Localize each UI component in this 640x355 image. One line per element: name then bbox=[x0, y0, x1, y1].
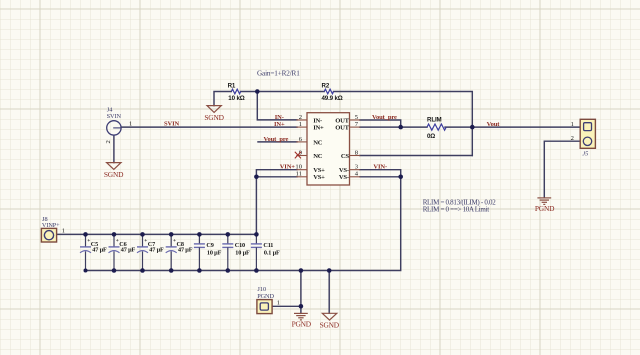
svg-text:SVIN: SVIN bbox=[107, 113, 122, 120]
svg-text:PGND: PGND bbox=[535, 204, 555, 213]
svg-text:2: 2 bbox=[299, 114, 302, 121]
connector J4 circle bbox=[107, 121, 121, 135]
svg-text:0.1 µF: 0.1 µF bbox=[264, 250, 280, 257]
svg-text:VS-: VS- bbox=[339, 167, 349, 174]
svg-text:J5: J5 bbox=[582, 150, 588, 157]
svg-text:IN-: IN- bbox=[275, 114, 284, 121]
ground SGND bottom symbol bbox=[322, 313, 337, 320]
junction bottom bus C6 bbox=[112, 268, 117, 273]
svg-text:IN-: IN- bbox=[313, 117, 322, 124]
J8 pad circle bbox=[44, 231, 53, 240]
J5 pin 1 pad square bbox=[584, 123, 592, 131]
svg-text:PGND: PGND bbox=[292, 320, 312, 329]
svg-text:SGND: SGND bbox=[104, 170, 124, 179]
J10 pad square bbox=[260, 303, 268, 310]
svg-text:10 kΩ: 10 kΩ bbox=[228, 95, 244, 102]
C6 labels bbox=[116, 238, 136, 253]
U1 pin numbers bbox=[295, 114, 358, 178]
resistor R2 bbox=[324, 89, 333, 94]
svg-text:NC: NC bbox=[313, 153, 323, 160]
junction bottom bus SGND drop bbox=[327, 268, 332, 273]
wire Vout_pre stub at pin 6 bbox=[258, 141, 297, 143]
ground PGND bottom symbol bbox=[294, 313, 308, 320]
C10 labels bbox=[235, 242, 250, 257]
svg-text:RLIM: RLIM bbox=[427, 117, 442, 124]
svg-text:10: 10 bbox=[295, 164, 302, 171]
junction top bus C5 bbox=[83, 232, 88, 237]
C8 labels bbox=[173, 238, 193, 253]
C9 labels bbox=[206, 242, 221, 257]
COMPONENTS bbox=[104, 70, 500, 185]
op-amp U1 body bbox=[307, 113, 350, 185]
junction Vout node bbox=[470, 125, 475, 130]
svg-text:SVIN: SVIN bbox=[164, 121, 180, 128]
wire VIN- pin4 bbox=[360, 176, 401, 178]
connector J5 body bbox=[580, 119, 595, 148]
svg-text:C11: C11 bbox=[263, 242, 273, 249]
svg-text:IN+: IN+ bbox=[313, 125, 324, 132]
svg-text:C10: C10 bbox=[235, 242, 245, 249]
wire CS pin8 to Vout vertical bbox=[360, 155, 472, 157]
svg-text:47 µF: 47 µF bbox=[149, 247, 164, 254]
svg-text:R2: R2 bbox=[322, 82, 330, 89]
wire VIN- pin3 down to bottom bus bbox=[86, 170, 401, 271]
svg-text:1: 1 bbox=[62, 228, 65, 235]
wire SVIN J4 to pin IN+ bbox=[121, 126, 297, 128]
wire bus drop to SGND bottom bbox=[328, 271, 330, 314]
svg-text:VS-: VS- bbox=[339, 174, 349, 181]
svg-text:10 µF: 10 µF bbox=[235, 250, 250, 257]
svg-text:0Ω: 0Ω bbox=[427, 133, 435, 140]
junction bottom bus C10 bbox=[226, 268, 231, 273]
svg-text:VS+: VS+ bbox=[313, 167, 325, 174]
junction top bus C10 bbox=[226, 232, 231, 237]
connector J10 body bbox=[257, 300, 272, 314]
C11 labels bbox=[263, 242, 280, 257]
junction bottom bus C8 bbox=[169, 268, 174, 273]
junction bottom bus C7 bbox=[140, 268, 145, 273]
capacitor C11 bbox=[251, 234, 262, 270]
wire R1 to node A bbox=[241, 91, 325, 93]
C7 labels bbox=[144, 238, 164, 253]
wire node A down to pin IN- bbox=[257, 92, 297, 120]
wire VIN+ top bus J8 to C11 bbox=[57, 233, 257, 235]
junction node A R1/R2/IN- bbox=[255, 89, 260, 94]
wire VIN+ pin11 bbox=[256, 176, 297, 178]
svg-text:47 µF: 47 µF bbox=[178, 247, 193, 254]
svg-text:2: 2 bbox=[105, 140, 112, 143]
capacitor C8 bbox=[166, 234, 177, 270]
svg-text:SGND: SGND bbox=[320, 321, 340, 330]
svg-text:Gain=1+R2/R1: Gain=1+R2/R1 bbox=[257, 70, 300, 78]
wire OUT pin7 to RLIM bbox=[360, 126, 427, 128]
wire OUT pin5 over to pin7 bbox=[360, 120, 401, 127]
junction top bus C6 bbox=[112, 232, 117, 237]
resistor R1 bbox=[231, 89, 240, 94]
junction J10 PGND bbox=[299, 304, 304, 309]
svg-text:Vout_pre: Vout_pre bbox=[372, 114, 397, 121]
capacitor C10 bbox=[222, 234, 233, 270]
svg-text:J10: J10 bbox=[257, 286, 266, 293]
wire RLIM to J5 pin1 bbox=[445, 126, 580, 128]
junction top bus C8 bbox=[169, 232, 174, 237]
ground PGND mid symbol bbox=[537, 198, 551, 205]
ground SGND under J4 bbox=[107, 163, 121, 170]
capacitor C5 bbox=[80, 234, 91, 270]
svg-text:VS+: VS+ bbox=[313, 174, 325, 181]
svg-text:Vout: Vout bbox=[487, 121, 501, 128]
wire VIN+ pin10 down to cap bus bbox=[256, 170, 297, 235]
resistor RLIM bbox=[427, 124, 446, 130]
svg-text:2: 2 bbox=[571, 135, 574, 142]
wire J5 pin2 to PGND bbox=[544, 141, 580, 197]
ground SGND under R1 bbox=[207, 106, 221, 113]
junction bottom bus C9 bbox=[197, 268, 202, 273]
svg-text:VIN-: VIN- bbox=[373, 164, 387, 171]
svg-text:PGND: PGND bbox=[257, 293, 274, 300]
svg-text:SGND: SGND bbox=[204, 113, 224, 122]
connector J8 body bbox=[41, 228, 56, 242]
wire bus drop to PGND bottom bbox=[300, 271, 302, 314]
wire J4 pin2 down to SGND bbox=[113, 135, 115, 162]
capacitor C9 bbox=[194, 234, 205, 270]
svg-text:10 µF: 10 µF bbox=[207, 250, 222, 257]
svg-text:NC: NC bbox=[313, 139, 323, 146]
svg-text:VIN+: VIN+ bbox=[280, 164, 296, 171]
capacitor C7 bbox=[137, 234, 148, 270]
svg-text:RLIM = 0 ==> 10A Limit: RLIM = 0 ==> 10A Limit bbox=[423, 206, 490, 214]
junction bottom bus PGND drop bbox=[299, 268, 304, 273]
wire J10 pin1 to PGND node bbox=[272, 305, 301, 307]
svg-text:Vout_pre: Vout_pre bbox=[264, 136, 289, 143]
junction top bus C11 bbox=[254, 232, 259, 237]
junction top bus C9 bbox=[197, 232, 202, 237]
svg-text:1: 1 bbox=[571, 121, 574, 128]
svg-text:47 µF: 47 µF bbox=[121, 247, 136, 254]
C5 labels bbox=[87, 238, 107, 253]
junction VIN+ pin11 bbox=[254, 175, 259, 180]
svg-text:1: 1 bbox=[299, 121, 302, 128]
svg-text:VINP+: VINP+ bbox=[42, 222, 60, 229]
svg-text:OUT: OUT bbox=[335, 125, 349, 132]
U1 right pin stubs bbox=[350, 120, 361, 177]
svg-text:R1: R1 bbox=[228, 83, 236, 90]
svg-text:1: 1 bbox=[277, 300, 280, 307]
svg-text:49.9 kΩ: 49.9 kΩ bbox=[322, 95, 343, 102]
svg-text:47 µF: 47 µF bbox=[92, 247, 107, 254]
junction bottom bus C11 bbox=[254, 268, 259, 273]
junction top bus C7 bbox=[140, 232, 145, 237]
J5 pin 2 pad circle bbox=[583, 137, 591, 145]
U1 left pin stubs bbox=[296, 120, 307, 177]
svg-text:1: 1 bbox=[129, 120, 132, 127]
junction OUT pins bbox=[398, 125, 403, 130]
wire R1 left to SGND bbox=[214, 92, 231, 106]
junction bottom bus C5 corner bbox=[84, 269, 88, 273]
svg-text:11: 11 bbox=[296, 171, 302, 178]
svg-text:OUT: OUT bbox=[335, 117, 349, 124]
svg-text:C9: C9 bbox=[206, 242, 213, 249]
junction VIN- pin4 bbox=[398, 175, 403, 180]
U1 pin 9 no-connect X bbox=[295, 152, 301, 159]
svg-text:IN+: IN+ bbox=[274, 121, 285, 128]
svg-text:CS: CS bbox=[341, 153, 350, 160]
capacitor C6 bbox=[109, 234, 120, 270]
wire R2 right to Vout vertical bbox=[334, 92, 473, 156]
MORE COMPONENTS bbox=[41, 119, 595, 329]
U1 pin names bbox=[313, 117, 349, 181]
